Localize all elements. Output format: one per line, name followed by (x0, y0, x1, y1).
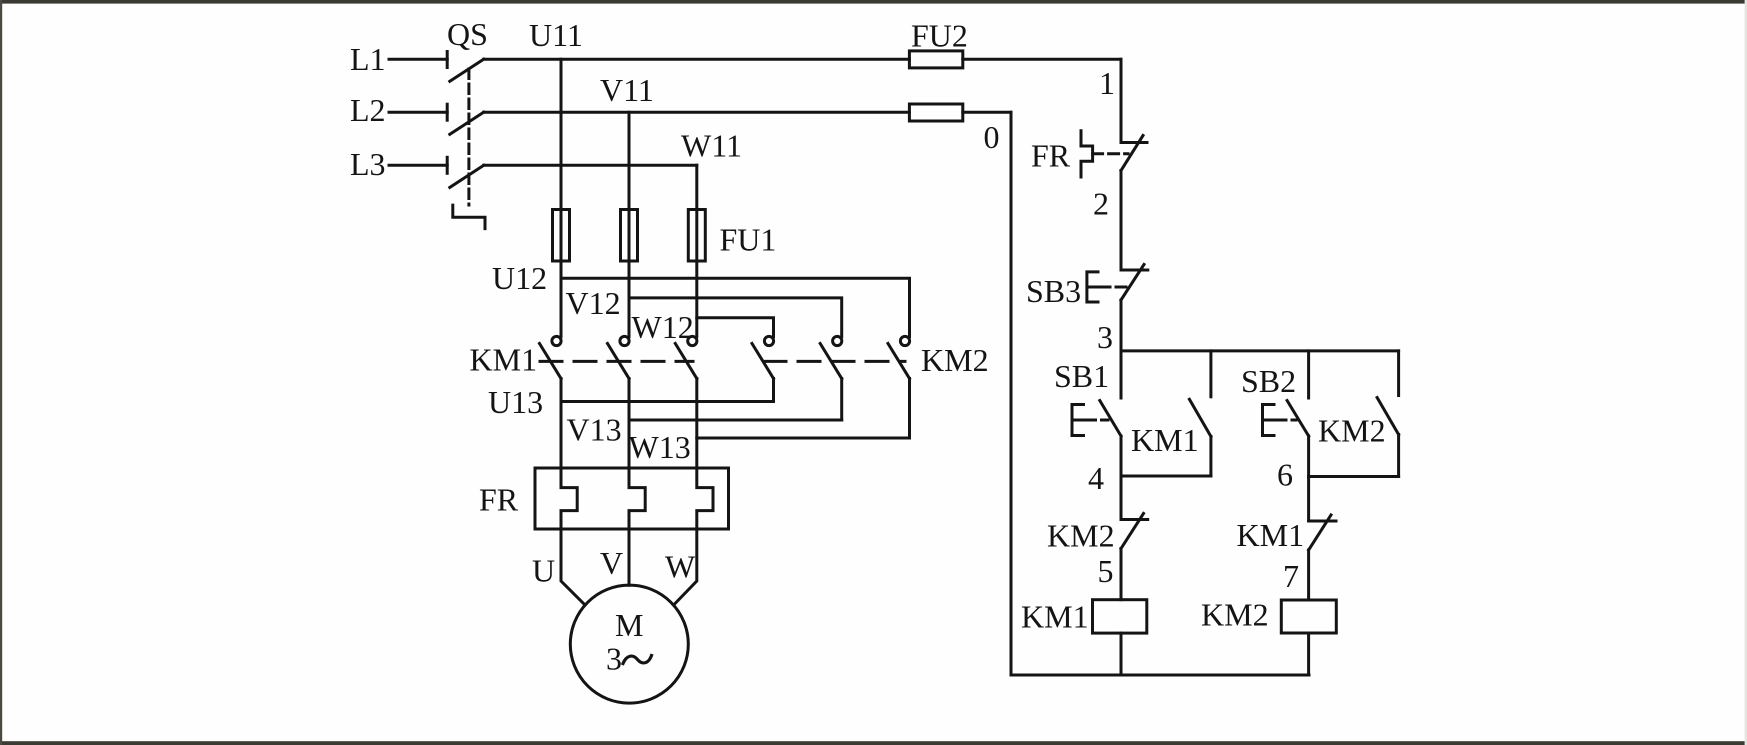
svg-text:FU2: FU2 (911, 18, 968, 54)
svg-text:7: 7 (1283, 558, 1299, 594)
svg-text:U11: U11 (529, 17, 583, 53)
svg-text:SB2: SB2 (1241, 363, 1296, 399)
svg-text:W11: W11 (681, 128, 742, 164)
svg-text:QS: QS (447, 16, 488, 52)
svg-text:FR: FR (479, 482, 519, 518)
svg-text:M: M (615, 607, 643, 643)
svg-text:W13: W13 (629, 429, 691, 465)
svg-text:KM2: KM2 (921, 342, 989, 378)
svg-text:KM2: KM2 (1201, 597, 1269, 633)
svg-text:W12: W12 (632, 309, 694, 345)
svg-text:3: 3 (1097, 319, 1113, 355)
svg-text:U13: U13 (488, 384, 543, 420)
svg-text:W: W (665, 549, 696, 585)
svg-text:KM2: KM2 (1047, 518, 1115, 554)
svg-text:3: 3 (606, 641, 622, 677)
svg-text:U: U (532, 553, 555, 589)
svg-text:V12: V12 (566, 285, 621, 321)
svg-text:V: V (600, 545, 623, 581)
svg-text:V13: V13 (567, 412, 622, 448)
svg-text:1: 1 (1099, 65, 1115, 101)
svg-text:4: 4 (1088, 460, 1104, 496)
svg-text:L2: L2 (350, 92, 386, 128)
svg-text:2: 2 (1093, 186, 1109, 222)
svg-text:FU1: FU1 (720, 222, 777, 258)
svg-text:KM1: KM1 (1237, 517, 1305, 553)
svg-text:SB1: SB1 (1054, 358, 1109, 394)
svg-text:V11: V11 (600, 72, 654, 108)
svg-text:5: 5 (1098, 553, 1114, 589)
svg-text:SB3: SB3 (1026, 273, 1081, 309)
svg-text:L1: L1 (350, 41, 386, 77)
svg-text:0: 0 (984, 119, 1000, 155)
svg-text:FR: FR (1031, 138, 1071, 174)
svg-text:KM1: KM1 (1131, 422, 1199, 458)
svg-text:6: 6 (1277, 457, 1293, 493)
svg-text:KM1: KM1 (470, 342, 538, 378)
svg-text:L3: L3 (350, 146, 386, 182)
svg-text:U12: U12 (492, 260, 547, 296)
svg-text:KM1: KM1 (1021, 599, 1089, 635)
svg-text:KM2: KM2 (1318, 413, 1386, 449)
